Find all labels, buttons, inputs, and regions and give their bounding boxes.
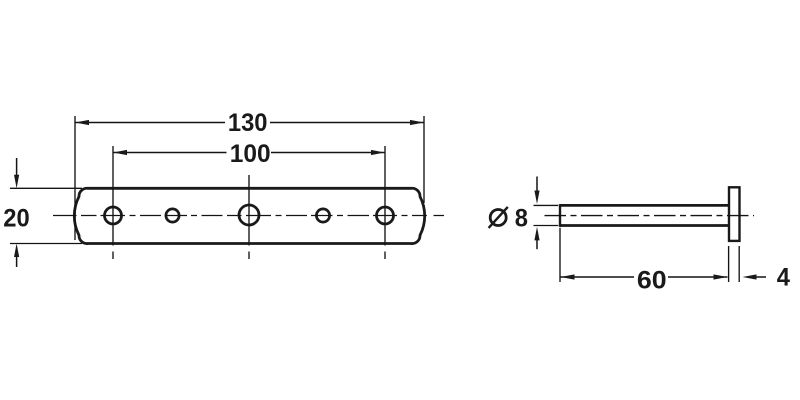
- svg-text:100: 100: [230, 141, 271, 168]
- svg-text:130: 130: [228, 109, 268, 137]
- svg-text:20: 20: [3, 205, 29, 233]
- svg-text:60: 60: [637, 267, 667, 294]
- svg-text:8: 8: [515, 205, 528, 233]
- svg-text:4: 4: [777, 264, 791, 292]
